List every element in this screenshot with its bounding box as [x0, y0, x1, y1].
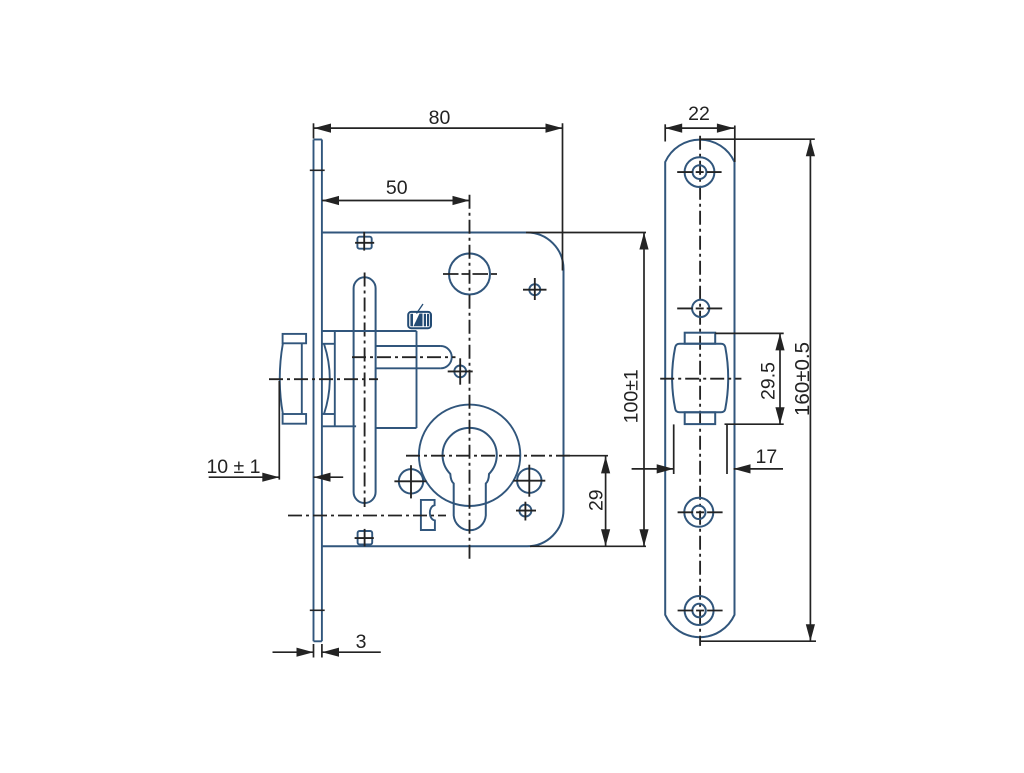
- front screw hole top crosshair: [677, 171, 721, 173]
- extension line 29 top: [565, 455, 608, 457]
- svg-text:3: 3: [356, 631, 367, 653]
- dimension 17: [632, 424, 783, 474]
- dimension 10±1: [209, 381, 344, 480]
- latch tail centerline: [352, 356, 456, 358]
- side hole right crosshair: [513, 465, 545, 497]
- dimension 22: [665, 124, 735, 162]
- latch head: [280, 334, 306, 424]
- latch centerline: [269, 378, 378, 380]
- front screw hole bottom inner: [692, 604, 705, 617]
- svg-text:29: 29: [586, 489, 608, 511]
- spring detail hatched: [408, 304, 431, 328]
- side hole left: [399, 469, 423, 493]
- dimension 3: [273, 644, 381, 658]
- dimension 80: [314, 123, 563, 270]
- bolt cutout top tab: [685, 333, 716, 344]
- pivot pin P1: [454, 366, 466, 378]
- screw hole S1: [529, 284, 540, 295]
- svg-text:100±1: 100±1: [621, 369, 643, 423]
- screw hole S2: [519, 505, 531, 517]
- side hole left crosshair: [394, 465, 426, 498]
- front pin hole crosshair: [677, 307, 722, 309]
- dimension 29.5: [715, 333, 784, 424]
- break tick top: [310, 169, 325, 171]
- front screw hole mid outer: [684, 498, 713, 527]
- top guide circle crosshair: [443, 273, 497, 275]
- pivot pin P1 crosshair: [448, 358, 473, 384]
- faceplate side view: [314, 140, 322, 642]
- front screw hole bottom crosshair: [678, 610, 723, 612]
- svg-text:17: 17: [756, 446, 778, 468]
- latch tail bar: [376, 346, 451, 368]
- dimension 160±0.5: [700, 139, 816, 641]
- dimension 50: [322, 200, 470, 202]
- follower slot: [354, 277, 376, 503]
- bolt cutout crosshair: [660, 378, 741, 380]
- dimension 100±1: [526, 233, 646, 547]
- cylinder hole: [419, 405, 520, 506]
- latch lens: [322, 344, 335, 414]
- follower slot centerline: [364, 273, 366, 508]
- lower centerline: [288, 515, 446, 517]
- svg-text:50: 50: [386, 177, 408, 199]
- front screw hole top inner: [693, 165, 707, 179]
- screw hole S1 crosshair: [523, 278, 547, 300]
- svg-text:29.5: 29.5: [758, 362, 780, 400]
- top guide circle: [449, 254, 490, 295]
- retainer bracket: [421, 500, 435, 530]
- svg-text:22: 22: [688, 103, 710, 125]
- front screw hole mid crosshair: [678, 511, 723, 513]
- fixing square top cross: [355, 232, 374, 251]
- front plate outline: [665, 140, 734, 638]
- bolt cutout body: [672, 344, 728, 413]
- side hole right: [517, 469, 541, 493]
- fixing square bottom: [358, 531, 373, 545]
- fixing square bottom cross: [355, 529, 374, 547]
- bolt cutout bottom tab: [685, 412, 716, 424]
- svg-text:10 ± 1: 10 ± 1: [206, 456, 260, 478]
- dimension 29: [605, 456, 607, 546]
- front screw hole bottom outer: [685, 596, 714, 625]
- mechanism block: [322, 331, 417, 428]
- front screw hole top outer: [685, 157, 715, 187]
- lock case outline: [322, 233, 564, 547]
- svg-text:160±0.5: 160±0.5: [791, 342, 814, 416]
- front plate centerline: [699, 136, 701, 646]
- break tick bottom: [310, 609, 325, 611]
- front screw hole mid inner: [692, 506, 705, 519]
- screw hole S2 crosshair: [516, 502, 536, 521]
- svg-text:80: 80: [429, 107, 451, 129]
- cylinder vertical centerline: [469, 195, 471, 560]
- cylinder horizontal centerline: [406, 455, 570, 457]
- front pin hole: [692, 300, 709, 317]
- fixing square top: [357, 237, 371, 249]
- cylinder euro profile: [443, 428, 497, 530]
